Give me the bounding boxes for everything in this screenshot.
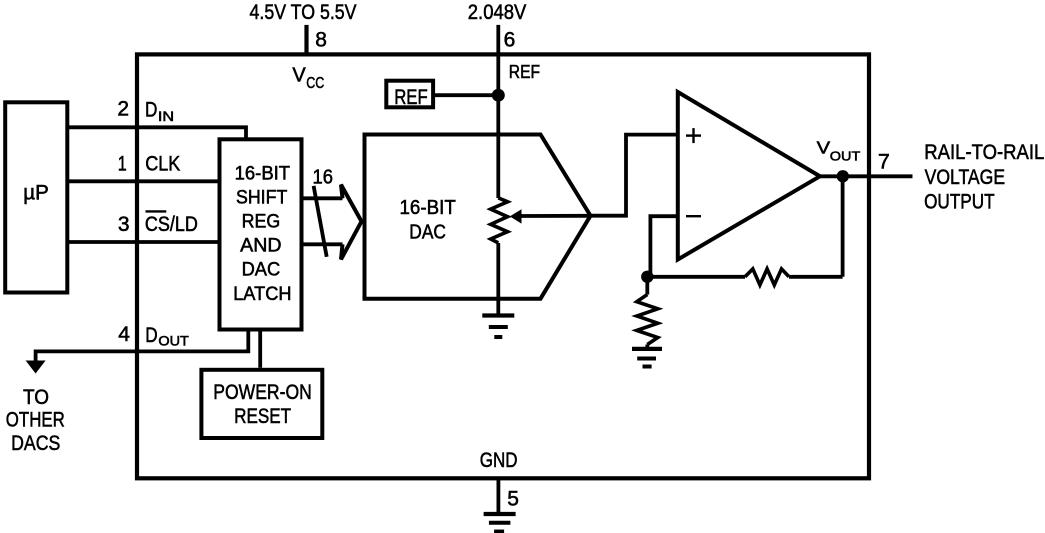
svg-text:RAIL-TO-RAIL: RAIL-TO-RAIL (924, 141, 1044, 164)
label RAIL-TO-RAIL VOLTAGE OUTPUT (924, 141, 1044, 214)
pin 5 stub wire (496, 478, 500, 514)
svg-text:D: D (145, 323, 157, 347)
svg-text:OUTPUT: OUTPUT (924, 191, 995, 214)
svg-text:RESET: RESET (234, 404, 291, 428)
output wire VOUT (820, 174, 913, 178)
node output junction dot (837, 170, 849, 182)
svg-text:LATCH: LATCH (233, 284, 291, 305)
svg-text:OTHER: OTHER (6, 408, 65, 432)
svg-text:REF: REF (394, 85, 428, 109)
svg-text:TO: TO (23, 385, 49, 409)
potentiometer resistor on REF rail (491, 198, 508, 243)
svg-text:16-BIT: 16-BIT (400, 197, 456, 219)
svg-text:OUT: OUT (830, 148, 861, 163)
svg-text:8: 8 (315, 29, 327, 52)
svg-text:V: V (817, 138, 831, 158)
svg-text:REF: REF (509, 62, 540, 82)
svg-text:CC: CC (306, 75, 324, 92)
svg-text:4: 4 (118, 323, 130, 346)
svg-text:IN: IN (158, 109, 174, 124)
label TO OTHER DACS (6, 385, 65, 455)
wire DOUT from shift register to arrow (36, 330, 249, 362)
svg-text:DACS: DACS (11, 431, 60, 455)
wire REF rail lower segment to ground (496, 243, 500, 316)
svg-text:2: 2 (117, 98, 129, 121)
net label VCC (292, 65, 324, 93)
svg-text:VOLTAGE: VOLTAGE (925, 166, 1006, 189)
wire shift register to power-on reset (258, 330, 262, 368)
wire DIN from uP to shift register top (66, 127, 246, 139)
svg-text:3: 3 (118, 213, 130, 236)
wire inverting input to feedback node (650, 216, 677, 277)
svg-text:POWER-ON: POWER-ON (213, 380, 311, 404)
svg-text:AND: AND (240, 236, 281, 257)
REF block (386, 81, 433, 109)
ground under feedback resistor (632, 349, 662, 367)
outer IC boundary box (137, 54, 869, 478)
svg-text:REG: REG (242, 212, 281, 233)
svg-text:D: D (145, 98, 157, 122)
ground at pin 5 (484, 514, 516, 531)
svg-text:V: V (292, 65, 306, 87)
pin 6 stub wire and REF vertical rail (496, 25, 500, 198)
svg-text:5: 5 (507, 488, 519, 511)
svg-text:CLK: CLK (145, 152, 181, 176)
svg-text:1: 1 (118, 152, 127, 175)
svg-text:SHIFT: SHIFT (236, 188, 288, 209)
wire DAC apex to op-amp non-inverting input (591, 135, 678, 216)
svg-text:OUT: OUT (158, 333, 189, 348)
svg-text:7: 7 (878, 150, 890, 174)
microprocessor block uP (5, 102, 67, 292)
svg-text:16-BIT: 16-BIT (235, 164, 291, 185)
svg-text:DAC: DAC (409, 221, 446, 243)
svg-text:µP: µP (23, 182, 49, 205)
ground under DAC (482, 316, 514, 338)
wire CS/LD from uP to shift register (66, 240, 220, 244)
svg-text:2.048V: 2.048V (468, 0, 527, 24)
pin label DIN (145, 98, 174, 124)
svg-text:4.5V TO 5.5V: 4.5V TO 5.5V (250, 0, 358, 24)
wire REF block to REF rail (433, 93, 498, 97)
node feedback junction dot (641, 271, 653, 283)
pin 8 stub wire (304, 25, 308, 56)
pin label DOUT (145, 323, 189, 348)
svg-text:GND: GND (480, 448, 518, 472)
16-bit shift register and DAC latch block (220, 139, 302, 329)
op-amp (678, 92, 820, 260)
feedback resistor network (647, 176, 842, 285)
net label VOUT (817, 138, 861, 164)
wiper arrow from DAC apex (510, 209, 591, 223)
svg-text:16: 16 (313, 166, 334, 188)
16-bit DAC block (365, 135, 591, 299)
svg-text:DAC: DAC (242, 260, 281, 281)
power-on reset block (201, 370, 322, 438)
node junction dot on REF rail (492, 89, 505, 102)
wire CLK from uP to shift register (66, 179, 220, 183)
svg-text:CS/LD: CS/LD (145, 212, 198, 236)
pin label CS/LD with overbar on CS (145, 211, 198, 236)
arrowhead to other DACs (26, 361, 46, 374)
resistor to ground from feedback node (637, 277, 658, 349)
bus width slash (314, 186, 327, 257)
16-wide data bus with open arrow (302, 185, 362, 260)
svg-text:6: 6 (504, 29, 516, 52)
